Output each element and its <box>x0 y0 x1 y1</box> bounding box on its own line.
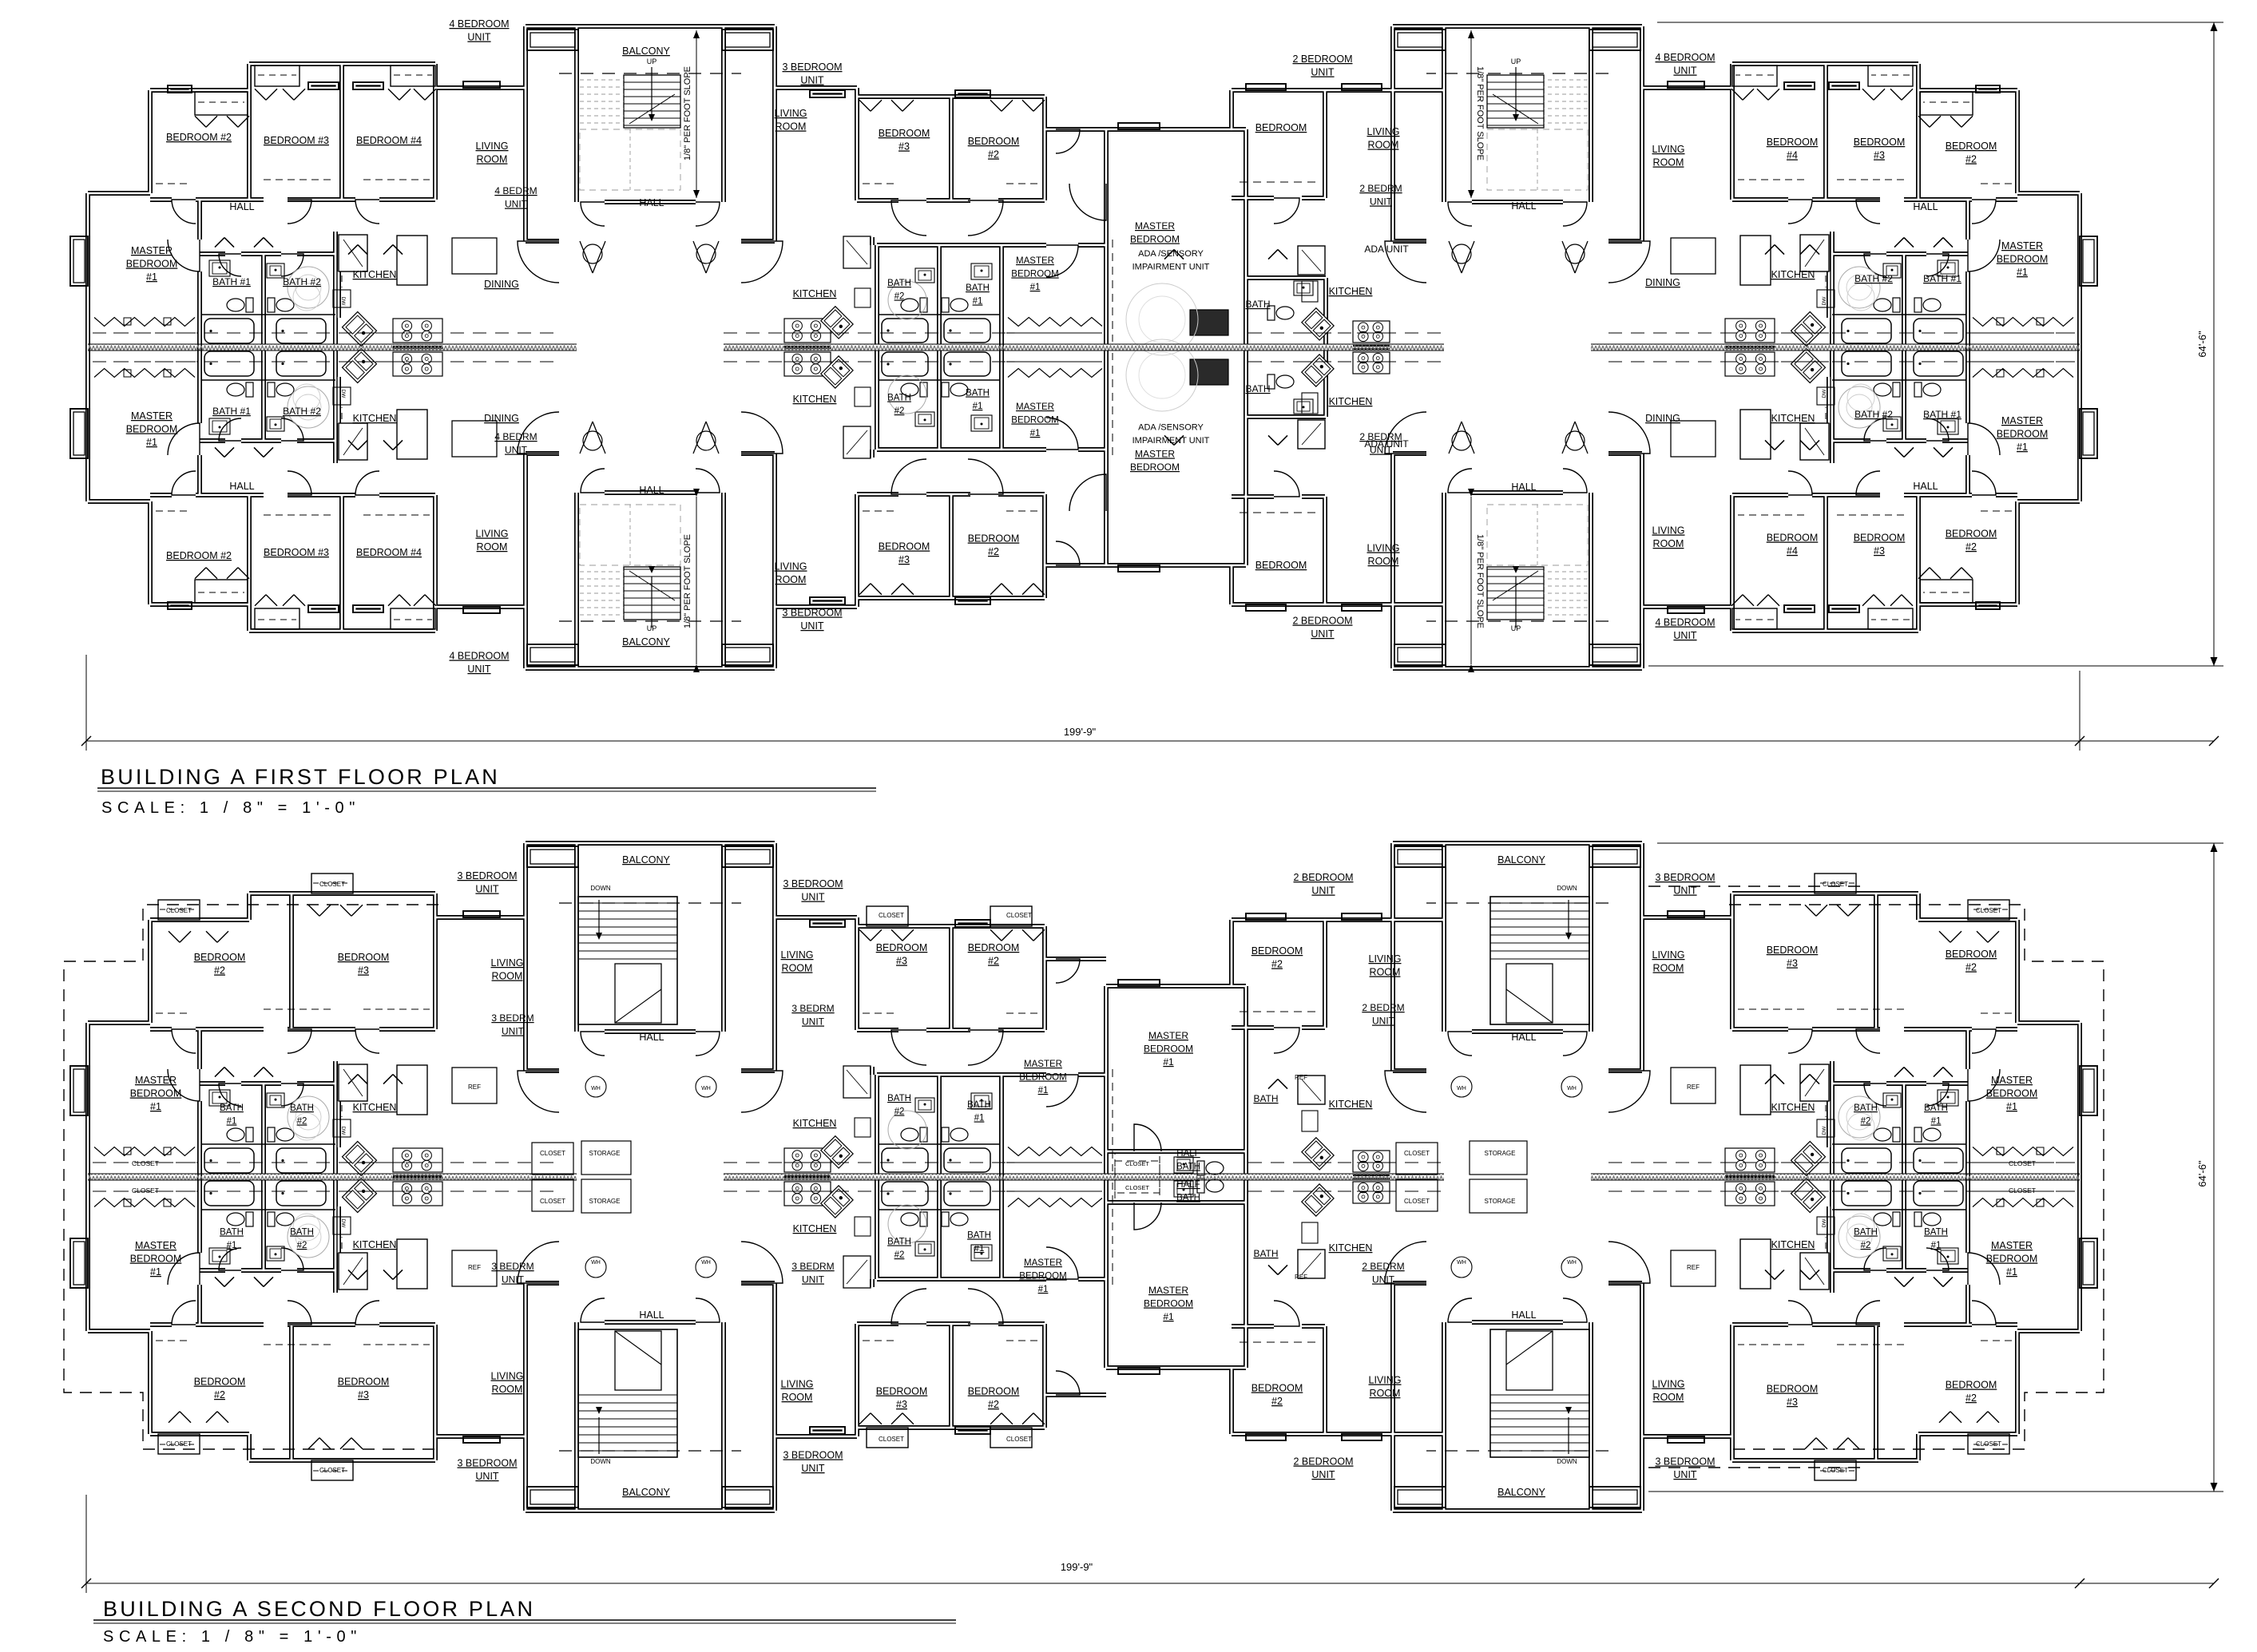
svg-text:#1: #1 <box>2017 267 2028 278</box>
svg-text:BATH: BATH <box>966 389 990 398</box>
svg-text:BATH: BATH <box>220 1103 244 1113</box>
svg-text:DINING: DINING <box>1645 277 1680 288</box>
svg-text:MASTER: MASTER <box>1991 1075 2033 1086</box>
svg-text:#2: #2 <box>297 1117 307 1127</box>
svg-text:DW: DW <box>1822 389 1827 398</box>
svg-text:HALL: HALL <box>1511 1032 1536 1043</box>
svg-text:BATH #1: BATH #1 <box>212 406 251 417</box>
svg-text:UNIT: UNIT <box>1311 1469 1335 1480</box>
svg-text:BEDROOM: BEDROOM <box>1251 1383 1303 1394</box>
svg-text:WH: WH <box>1567 1260 1577 1266</box>
svg-text:MASTER: MASTER <box>1148 1030 1188 1041</box>
svg-text:#1: #1 <box>1931 1117 1942 1127</box>
svg-text:BATH #1: BATH #1 <box>1923 273 1961 284</box>
svg-text:BEDROOM: BEDROOM <box>1854 137 1906 148</box>
svg-text:#2: #2 <box>1861 1117 1871 1127</box>
svg-text:SCALE: 1 / 8" = 1'-0": SCALE: 1 / 8" = 1'-0" <box>103 1628 362 1646</box>
svg-text:#1: #1 <box>227 1241 237 1250</box>
svg-text:DW: DW <box>340 297 346 307</box>
svg-text:ROOM: ROOM <box>775 121 807 133</box>
svg-text:ADA UNIT: ADA UNIT <box>1364 438 1409 450</box>
svg-text:3 BEDRM: 3 BEDRM <box>491 1261 534 1272</box>
svg-text:BEDROOM: BEDROOM <box>876 942 928 953</box>
svg-text:LIVING: LIVING <box>775 561 807 572</box>
svg-text:BEDROOM: BEDROOM <box>1251 945 1303 957</box>
svg-text:KITCHEN: KITCHEN <box>1329 1099 1373 1110</box>
svg-text:#1: #1 <box>150 1266 161 1278</box>
svg-text:UNIT: UNIT <box>801 892 825 903</box>
svg-text:ROOM: ROOM <box>1370 967 1401 978</box>
svg-text:WH: WH <box>701 1086 711 1091</box>
svg-text:BEDROOM: BEDROOM <box>876 1386 928 1397</box>
svg-text:199'-9": 199'-9" <box>1064 726 1097 738</box>
svg-text:DOWN: DOWN <box>590 1458 611 1465</box>
svg-text:BEDROOM: BEDROOM <box>1255 122 1307 133</box>
svg-text:#1: #1 <box>973 297 983 307</box>
svg-text:3 BEDROOM: 3 BEDROOM <box>1655 872 1715 883</box>
svg-text:BUILDING A FIRST FLOOR PLAN: BUILDING A FIRST FLOOR PLAN <box>101 765 500 789</box>
svg-text:MASTER: MASTER <box>1135 220 1175 232</box>
svg-text:BEDROOM: BEDROOM <box>968 942 1020 953</box>
svg-text:ROOM: ROOM <box>1368 140 1399 151</box>
svg-text:2 BEDROOM: 2 BEDROOM <box>1292 53 1352 65</box>
svg-text:#3: #3 <box>896 956 907 967</box>
svg-text:CLOSET: CLOSET <box>540 1198 565 1205</box>
svg-text:BATH: BATH <box>290 1103 314 1113</box>
svg-text:BATH #2: BATH #2 <box>283 406 321 417</box>
svg-text:HALL: HALL <box>1511 200 1536 212</box>
svg-text:BATH: BATH <box>1253 1093 1278 1104</box>
svg-text:#2: #2 <box>894 1107 905 1117</box>
svg-text:DINING: DINING <box>484 413 519 424</box>
svg-text:BATH: BATH <box>1253 1248 1278 1259</box>
svg-text:CLOSET: CLOSET <box>132 1187 159 1194</box>
svg-text:LIVING: LIVING <box>1652 144 1685 155</box>
svg-text:BEDROOM: BEDROOM <box>194 952 246 963</box>
svg-text:#3: #3 <box>898 141 910 153</box>
svg-text:#1: #1 <box>974 1244 985 1254</box>
svg-text:CLOSET: CLOSET <box>1006 1436 1032 1443</box>
svg-text:UNIT: UNIT <box>467 664 491 675</box>
svg-text:ROOM: ROOM <box>1368 556 1399 567</box>
svg-text:DW: DW <box>1822 296 1827 306</box>
svg-text:BEDROOM: BEDROOM <box>1019 1073 1066 1083</box>
svg-text:BATH: BATH <box>1245 299 1270 310</box>
svg-text:KITCHEN: KITCHEN <box>1771 1239 1815 1250</box>
svg-text:BATH: BATH <box>1854 1103 1878 1113</box>
svg-text:BATH #1: BATH #1 <box>212 276 251 287</box>
svg-text:UNIT: UNIT <box>1673 885 1697 897</box>
svg-text:BATH: BATH <box>1176 1194 1200 1203</box>
svg-text:#2: #2 <box>214 965 225 977</box>
svg-text:DW: DW <box>1822 1218 1827 1228</box>
svg-text:DINING: DINING <box>1645 413 1680 424</box>
svg-text:LIVING: LIVING <box>476 141 509 152</box>
svg-text:CLOSET: CLOSET <box>166 907 192 914</box>
svg-text:REF: REF <box>468 1264 481 1271</box>
svg-text:1/8" PER FOOT SLOPE: 1/8" PER FOOT SLOPE <box>683 66 692 160</box>
svg-text:DW: DW <box>340 1127 346 1136</box>
svg-text:#2: #2 <box>1271 1396 1283 1407</box>
svg-text:BEDROOM #3: BEDROOM #3 <box>264 135 329 146</box>
svg-text:WH: WH <box>1457 1260 1466 1266</box>
svg-text:UNIT: UNIT <box>467 32 491 43</box>
svg-text:UP: UP <box>1511 624 1521 632</box>
svg-text:#2: #2 <box>988 149 999 160</box>
svg-text:KITCHEN: KITCHEN <box>793 288 837 299</box>
svg-text:BEDROOM: BEDROOM <box>1946 141 1997 152</box>
svg-text:KITCHEN: KITCHEN <box>1329 1242 1373 1254</box>
svg-text:199'-9": 199'-9" <box>1061 1561 1093 1573</box>
svg-text:#2: #2 <box>1861 1241 1871 1250</box>
svg-text:BATH: BATH <box>967 1100 991 1110</box>
svg-text:BEDROOM: BEDROOM <box>879 128 930 139</box>
svg-text:KITCHEN: KITCHEN <box>1329 286 1373 297</box>
svg-text:UNIT: UNIT <box>1372 1016 1395 1027</box>
svg-text:UNIT: UNIT <box>801 1463 825 1474</box>
svg-text:3 BEDROOM: 3 BEDROOM <box>783 878 843 889</box>
svg-text:BALCONY: BALCONY <box>1497 854 1545 866</box>
svg-text:3 BEDROOM: 3 BEDROOM <box>782 61 842 73</box>
svg-text:#1: #1 <box>146 271 157 283</box>
svg-text:1/8" PER FOOT SLOPE: 1/8" PER FOOT SLOPE <box>1475 66 1485 160</box>
svg-text:HALL: HALL <box>1511 1309 1536 1321</box>
svg-text:UNIT: UNIT <box>505 199 528 210</box>
svg-text:MASTER: MASTER <box>1024 1060 1062 1069</box>
svg-text:BEDROOM: BEDROOM <box>1767 533 1819 544</box>
svg-text:BATH: BATH <box>1924 1228 1948 1238</box>
svg-text:HALL: HALL <box>229 201 254 212</box>
svg-text:LIVING: LIVING <box>1652 949 1685 961</box>
svg-text:#1: #1 <box>973 402 983 411</box>
svg-text:BEDROOM: BEDROOM <box>1767 945 1819 956</box>
svg-text:MASTER: MASTER <box>1148 1285 1188 1296</box>
svg-text:ROOM: ROOM <box>477 154 508 165</box>
svg-text:ADA UNIT: ADA UNIT <box>1364 244 1409 255</box>
svg-text:3 BEDRM: 3 BEDRM <box>791 1261 834 1272</box>
svg-text:CLOSET: CLOSET <box>1823 1467 1848 1474</box>
svg-text:#2: #2 <box>214 1389 225 1400</box>
svg-text:MASTER: MASTER <box>135 1240 177 1251</box>
svg-text:CLOSET: CLOSET <box>879 1436 904 1443</box>
svg-text:#3: #3 <box>1874 545 1885 557</box>
svg-text:2 BEDROOM: 2 BEDROOM <box>1292 616 1352 627</box>
svg-text:#2: #2 <box>297 1241 307 1250</box>
svg-text:BEDROOM: BEDROOM <box>1011 416 1058 426</box>
svg-text:2 BEDRM: 2 BEDRM <box>1362 1002 1404 1013</box>
svg-text:KITCHEN: KITCHEN <box>793 1223 837 1234</box>
svg-text:ROOM: ROOM <box>492 971 523 982</box>
svg-text:KITCHEN: KITCHEN <box>793 394 837 405</box>
svg-text:BEDROOM: BEDROOM <box>1130 234 1180 245</box>
svg-text:#1: #1 <box>2017 442 2028 453</box>
svg-text:LIVING: LIVING <box>775 108 807 119</box>
svg-text:DW: DW <box>340 390 346 399</box>
svg-text:4 BEDROOM: 4 BEDROOM <box>449 18 509 30</box>
svg-text:WH: WH <box>1567 1086 1577 1091</box>
svg-text:#3: #3 <box>358 1389 369 1400</box>
svg-text:DW: DW <box>340 1219 346 1229</box>
svg-text:KITCHEN: KITCHEN <box>353 1239 397 1250</box>
svg-text:BEDROOM: BEDROOM <box>130 1088 182 1099</box>
svg-text:HALL: HALL <box>639 197 664 208</box>
svg-text:64'-6": 64'-6" <box>2196 331 2208 358</box>
svg-text:MASTER: MASTER <box>1016 256 1054 266</box>
svg-text:#4: #4 <box>1787 150 1798 161</box>
svg-text:BATH: BATH <box>966 283 990 293</box>
svg-text:LIVING: LIVING <box>1367 543 1400 554</box>
svg-text:#2: #2 <box>1965 154 1977 165</box>
svg-text:BATH: BATH <box>1176 1163 1200 1172</box>
svg-text:LIVING: LIVING <box>476 529 509 540</box>
svg-text:BEDROOM: BEDROOM <box>130 1254 182 1265</box>
svg-text:BUILDING A SECOND FLOOR PLAN: BUILDING A SECOND FLOOR PLAN <box>103 1597 535 1621</box>
svg-text:CLOSET: CLOSET <box>1976 907 2001 914</box>
svg-text:CLOSET: CLOSET <box>1125 1160 1149 1167</box>
svg-text:KITCHEN: KITCHEN <box>1771 1102 1815 1113</box>
svg-text:BALCONY: BALCONY <box>1497 1487 1545 1498</box>
svg-text:#2: #2 <box>988 1399 999 1410</box>
svg-text:ROOM: ROOM <box>1653 538 1684 549</box>
svg-text:#1: #1 <box>2006 1266 2017 1278</box>
svg-text:UNIT: UNIT <box>502 1274 525 1286</box>
svg-text:LIVING: LIVING <box>781 949 814 961</box>
svg-text:UNIT: UNIT <box>1311 628 1335 640</box>
svg-text:BEDROOM: BEDROOM <box>968 533 1020 545</box>
svg-text:WH: WH <box>591 1260 601 1266</box>
svg-text:BEDROOM: BEDROOM <box>1946 1380 1997 1391</box>
svg-text:ROOM: ROOM <box>1653 1392 1684 1403</box>
svg-text:2 BEDROOM: 2 BEDROOM <box>1293 1456 1353 1468</box>
svg-text:CLOSET: CLOSET <box>2009 1159 2036 1167</box>
svg-text:LIVING: LIVING <box>1652 525 1685 537</box>
svg-text:#3: #3 <box>1787 958 1798 969</box>
svg-text:#2: #2 <box>894 292 905 302</box>
svg-text:ROOM: ROOM <box>1653 157 1684 168</box>
svg-text:BEDROOM: BEDROOM <box>1986 1254 2038 1265</box>
svg-text:REF: REF <box>1687 1084 1700 1091</box>
svg-text:UNIT: UNIT <box>475 884 499 895</box>
svg-text:4 BEDRM: 4 BEDRM <box>494 431 537 442</box>
svg-text:MASTER: MASTER <box>1991 1240 2033 1251</box>
svg-text:CLOSET: CLOSET <box>1125 1184 1149 1191</box>
svg-text:HALL: HALL <box>1913 201 1938 212</box>
svg-text:UNIT: UNIT <box>1673 630 1697 641</box>
svg-text:BEDROOM: BEDROOM <box>126 259 178 270</box>
svg-text:#2: #2 <box>988 546 999 557</box>
svg-text:#2: #2 <box>1965 1393 1977 1404</box>
svg-text:BEDROOM: BEDROOM <box>1997 254 2049 265</box>
svg-text:3 BEDROOM: 3 BEDROOM <box>1655 1456 1715 1468</box>
svg-text:CLOSET: CLOSET <box>1823 881 1848 888</box>
svg-text:HALF: HALF <box>1176 1180 1200 1190</box>
svg-text:BEDROOM #2: BEDROOM #2 <box>166 550 232 561</box>
svg-text:UNIT: UNIT <box>1372 1274 1395 1286</box>
svg-text:HALL: HALL <box>1511 481 1536 493</box>
svg-text:64'-6": 64'-6" <box>2196 1160 2208 1187</box>
svg-text:UNIT: UNIT <box>1311 67 1335 78</box>
svg-text:REF: REF <box>1295 1274 1307 1281</box>
svg-text:3 BEDROOM: 3 BEDROOM <box>783 1450 843 1461</box>
svg-text:BEDROOM: BEDROOM <box>126 424 178 435</box>
svg-text:#1: #1 <box>1030 429 1041 438</box>
svg-text:WH: WH <box>701 1260 711 1266</box>
svg-text:#2: #2 <box>1271 959 1283 970</box>
svg-text:#1: #1 <box>1163 1056 1174 1068</box>
svg-text:#2: #2 <box>894 1250 905 1260</box>
svg-text:#3: #3 <box>1874 150 1885 161</box>
svg-text:#1: #1 <box>146 437 157 448</box>
svg-text:STORAGE: STORAGE <box>1485 1150 1516 1157</box>
svg-text:HALL: HALL <box>229 481 254 492</box>
svg-text:#3: #3 <box>898 554 910 565</box>
svg-text:UNIT: UNIT <box>802 1016 825 1028</box>
svg-text:#1: #1 <box>974 1114 985 1123</box>
svg-text:BEDROOM #2: BEDROOM #2 <box>166 132 232 143</box>
svg-text:KITCHEN: KITCHEN <box>1771 413 1815 424</box>
svg-text:BATH: BATH <box>220 1228 244 1238</box>
svg-text:REF: REF <box>468 1084 481 1091</box>
svg-text:#1: #1 <box>227 1117 237 1127</box>
svg-text:UNIT: UNIT <box>1673 1469 1697 1480</box>
svg-text:WH: WH <box>591 1086 601 1091</box>
svg-text:SCALE: 1 / 8" = 1'-0": SCALE: 1 / 8" = 1'-0" <box>101 799 360 817</box>
svg-text:#2: #2 <box>894 406 905 416</box>
svg-text:BEDROOM #4: BEDROOM #4 <box>356 135 422 146</box>
svg-text:#4: #4 <box>1787 545 1798 557</box>
svg-text:MASTER: MASTER <box>1024 1258 1062 1268</box>
svg-text:UNIT: UNIT <box>1311 885 1335 897</box>
svg-text:BEDROOM: BEDROOM <box>879 541 930 553</box>
svg-text:HALL: HALL <box>639 1309 664 1321</box>
svg-text:BATH #2: BATH #2 <box>1854 273 1893 284</box>
svg-text:ROOM: ROOM <box>492 1384 523 1395</box>
svg-text:BATH: BATH <box>1924 1103 1948 1113</box>
svg-text:4 BEDROOM: 4 BEDROOM <box>1655 617 1715 628</box>
svg-text:UP: UP <box>647 57 657 65</box>
svg-text:BEDROOM: BEDROOM <box>338 1377 390 1388</box>
svg-text:3 BEDRM: 3 BEDRM <box>491 1012 534 1024</box>
svg-text:BEDROOM: BEDROOM <box>1011 270 1058 279</box>
svg-text:CLOSET: CLOSET <box>1976 1440 2001 1448</box>
svg-text:BEDROOM #3: BEDROOM #3 <box>264 547 329 558</box>
svg-text:BATH: BATH <box>290 1228 314 1238</box>
svg-text:BATH #2: BATH #2 <box>1854 409 1893 420</box>
svg-text:STORAGE: STORAGE <box>589 1198 621 1205</box>
svg-text:BEDROOM #4: BEDROOM #4 <box>356 547 422 558</box>
svg-text:BEDROOM: BEDROOM <box>1130 462 1180 473</box>
svg-text:4 BEDROOM: 4 BEDROOM <box>449 651 509 662</box>
svg-text:BATH #1: BATH #1 <box>1923 409 1961 420</box>
svg-text:4 BEDRM: 4 BEDRM <box>494 185 537 196</box>
svg-text:HALL: HALL <box>639 1032 664 1043</box>
svg-text:IMPAIRMENT UNIT: IMPAIRMENT UNIT <box>1132 263 1210 272</box>
svg-text:BEDROOM: BEDROOM <box>968 136 1020 147</box>
svg-text:ADA /SENSORY: ADA /SENSORY <box>1138 423 1204 433</box>
svg-text:BEDROOM: BEDROOM <box>1997 429 2049 440</box>
svg-text:BEDROOM: BEDROOM <box>1946 949 1997 960</box>
svg-text:WH: WH <box>1457 1086 1466 1091</box>
svg-text:UNIT: UNIT <box>800 620 824 632</box>
svg-text:BEDROOM: BEDROOM <box>194 1377 246 1388</box>
svg-text:UP: UP <box>647 624 657 632</box>
svg-text:UP: UP <box>1511 57 1521 65</box>
svg-text:CLOSET: CLOSET <box>1006 912 1032 919</box>
svg-text:CLOSET: CLOSET <box>540 1150 565 1157</box>
svg-text:DW: DW <box>1822 1126 1827 1135</box>
svg-text:ROOM: ROOM <box>782 963 813 974</box>
svg-text:#3: #3 <box>896 1399 907 1410</box>
svg-text:BEDROOM: BEDROOM <box>1144 1044 1193 1055</box>
svg-text:LIVING: LIVING <box>1369 1375 1402 1386</box>
svg-text:BATH: BATH <box>887 279 911 288</box>
svg-text:KITCHEN: KITCHEN <box>353 413 397 424</box>
svg-text:MASTER: MASTER <box>2001 415 2043 426</box>
svg-text:BEDROOM: BEDROOM <box>1255 560 1307 571</box>
svg-text:MASTER: MASTER <box>131 245 173 256</box>
svg-text:HALL: HALL <box>1913 481 1938 492</box>
svg-text:1/8" PER FOOT SLOPE: 1/8" PER FOOT SLOPE <box>683 534 692 628</box>
svg-text:4 BEDROOM: 4 BEDROOM <box>1655 52 1715 63</box>
svg-text:LIVING: LIVING <box>1367 126 1400 137</box>
svg-text:MASTER: MASTER <box>1135 449 1175 460</box>
svg-text:2 BEDRM: 2 BEDRM <box>1359 183 1402 194</box>
svg-text:ROOM: ROOM <box>1370 1388 1401 1399</box>
svg-text:LIVING: LIVING <box>781 1379 814 1390</box>
svg-text:BALCONY: BALCONY <box>622 46 670 57</box>
svg-text:CLOSET: CLOSET <box>1404 1198 1430 1205</box>
svg-text:BATH: BATH <box>967 1231 991 1241</box>
svg-text:#2: #2 <box>988 956 999 967</box>
svg-text:#1: #1 <box>1163 1311 1174 1322</box>
svg-text:#1: #1 <box>1038 1285 1049 1294</box>
svg-text:KITCHEN: KITCHEN <box>1771 269 1815 280</box>
svg-text:LIVING: LIVING <box>491 957 524 969</box>
svg-text:MASTER: MASTER <box>1016 402 1054 412</box>
svg-text:BEDROOM: BEDROOM <box>1019 1272 1066 1282</box>
svg-text:2 BEDRM: 2 BEDRM <box>1362 1261 1404 1272</box>
svg-text:LIVING: LIVING <box>1369 953 1402 965</box>
svg-text:BATH: BATH <box>887 1094 911 1103</box>
svg-text:#1: #1 <box>1030 283 1041 292</box>
svg-text:BATH: BATH <box>1245 383 1270 394</box>
svg-text:ROOM: ROOM <box>477 541 508 553</box>
svg-text:STORAGE: STORAGE <box>589 1150 621 1157</box>
svg-text:UNIT: UNIT <box>1673 65 1697 77</box>
svg-text:HALF: HALF <box>1176 1149 1200 1159</box>
svg-text:CLOSET: CLOSET <box>132 1159 159 1167</box>
svg-text:BALCONY: BALCONY <box>622 854 670 866</box>
svg-text:3 BEDROOM: 3 BEDROOM <box>782 608 842 619</box>
svg-text:MASTER: MASTER <box>2001 240 2043 252</box>
svg-text:BALCONY: BALCONY <box>622 636 670 648</box>
svg-text:KITCHEN: KITCHEN <box>353 1102 397 1113</box>
svg-text:#1: #1 <box>1931 1241 1942 1250</box>
svg-text:#3: #3 <box>358 965 369 977</box>
svg-text:KITCHEN: KITCHEN <box>1329 396 1373 407</box>
svg-text:CLOSET: CLOSET <box>879 912 904 919</box>
svg-text:BEDROOM: BEDROOM <box>338 952 390 963</box>
svg-text:BEDROOM: BEDROOM <box>1854 533 1906 544</box>
svg-text:3 BEDROOM: 3 BEDROOM <box>457 1458 517 1469</box>
svg-text:DOWN: DOWN <box>1557 885 1577 892</box>
svg-text:DOWN: DOWN <box>1557 1458 1577 1465</box>
svg-text:STORAGE: STORAGE <box>1485 1198 1516 1205</box>
svg-text:HALL: HALL <box>639 485 664 496</box>
svg-text:DINING: DINING <box>484 279 519 290</box>
svg-text:CLOSET: CLOSET <box>1404 1150 1430 1157</box>
svg-text:IMPAIRMENT UNIT: IMPAIRMENT UNIT <box>1132 436 1210 446</box>
